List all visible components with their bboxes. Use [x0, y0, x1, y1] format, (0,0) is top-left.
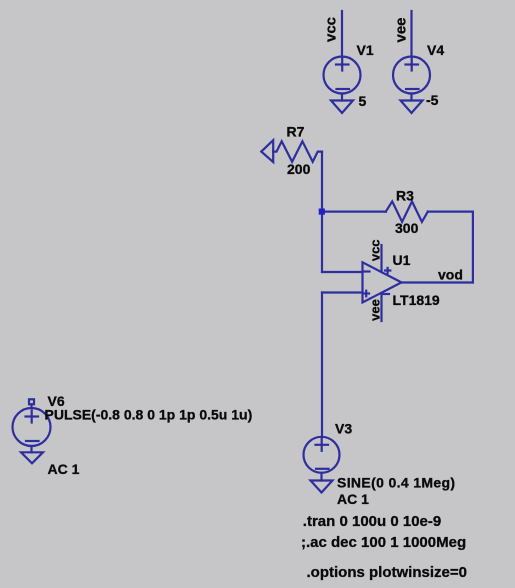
- svg-text:5: 5: [359, 93, 367, 109]
- wire noninverting input: [322, 291, 363, 293]
- U1 vee minus marker: [384, 293, 390, 295]
- ground (V3): [311, 481, 333, 493]
- svg-text:SINE(0 0.4 1Meg): SINE(0 0.4 1Meg): [337, 475, 455, 491]
- svg-text:vcc: vcc: [368, 239, 383, 261]
- svg-text:U1: U1: [393, 252, 411, 268]
- wire inverting input: [322, 271, 363, 273]
- svg-text:-5: -5: [426, 92, 439, 108]
- svg-text:vod: vod: [438, 267, 463, 283]
- wire noninverting to V3: [321, 293, 323, 437]
- wire R7 to node: [321, 152, 323, 212]
- svg-text:;.ac dec 100 1 1000Meg: ;.ac dec 100 1 1000Meg: [301, 534, 466, 551]
- wire V6 to ground: [30, 446, 32, 452]
- svg-text:vee: vee: [368, 299, 383, 321]
- op-amp U1: [363, 262, 402, 302]
- U1 vcc plus marker: [385, 268, 390, 273]
- svg-text:R3: R3: [396, 188, 414, 204]
- port arrow (R7 left terminal): [261, 140, 273, 162]
- node junction: [319, 209, 325, 215]
- wire V1 top lead: [341, 11, 343, 57]
- U1 minus input marker: [364, 270, 370, 272]
- svg-text:V1: V1: [357, 42, 374, 58]
- svg-text:V4: V4: [427, 42, 444, 58]
- svg-text:300: 300: [395, 220, 419, 236]
- wire node to inverting input: [321, 212, 323, 272]
- svg-text:AC 1: AC 1: [48, 461, 80, 477]
- svg-text:vcc: vcc: [323, 17, 340, 42]
- svg-text:200: 200: [287, 161, 311, 177]
- svg-text:PULSE(-0.8 0.8 0 1p 1p 0.5u 1u: PULSE(-0.8 0.8 0 1p 1p 0.5u 1u): [45, 407, 253, 423]
- wire feedback vertical: [472, 212, 474, 283]
- wire V6 top stub: [30, 404, 32, 408]
- svg-text:.options plotwinsize=0: .options plotwinsize=0: [307, 564, 467, 581]
- ground (V6): [21, 452, 43, 463]
- wire V1 to ground: [341, 94, 343, 101]
- svg-text:.tran 0 100u 0 10e-9: .tran 0 100u 0 10e-9: [303, 513, 441, 530]
- svg-text:LT1819: LT1819: [393, 292, 440, 308]
- voltage source V3: [304, 437, 340, 473]
- voltage source V1: [324, 57, 361, 94]
- ground (V4): [401, 101, 423, 114]
- svg-text:V3: V3: [335, 421, 352, 437]
- svg-text:vee: vee: [393, 17, 410, 42]
- ground (V1): [331, 101, 353, 114]
- U1 vee pin stub: [380, 293, 382, 321]
- U1 vcc pin stub: [380, 245, 382, 272]
- svg-text:AC 1: AC 1: [337, 491, 369, 507]
- resistor R3: [386, 201, 428, 222]
- voltage source V6: [13, 408, 51, 446]
- voltage source V4: [393, 57, 430, 94]
- wire V4 top lead: [410, 11, 412, 57]
- wire R3 to feedback corner: [428, 211, 473, 213]
- wire output: [402, 281, 473, 283]
- resistor R7: [273, 141, 322, 162]
- unconnected pin marker (V6): [29, 399, 34, 404]
- wire V4 to ground: [410, 94, 412, 101]
- wire node to R3: [322, 211, 386, 213]
- wire V3 to ground: [320, 473, 322, 481]
- U1 plus input marker: [364, 291, 370, 297]
- svg-text:R7: R7: [287, 124, 305, 140]
